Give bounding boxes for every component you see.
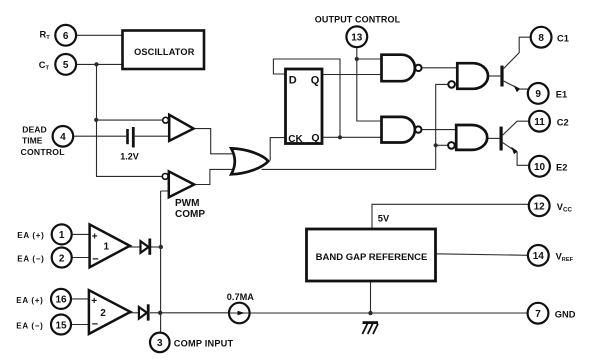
node Qbar feedback tap <box>338 135 342 139</box>
svg-text:D: D <box>289 75 297 87</box>
svg-text:16: 16 <box>55 295 67 306</box>
node CT junction <box>94 62 98 66</box>
svg-text:8: 8 <box>538 33 544 44</box>
node steering branch <box>434 143 438 147</box>
wire pin4 to capacitor <box>73 135 126 137</box>
svg-text:14: 14 <box>533 251 545 262</box>
svg-text:E1: E1 <box>556 90 567 100</box>
node dead-time branch <box>94 118 98 122</box>
svg-text:10: 10 <box>534 162 546 173</box>
wire diode D2 to comp node <box>150 312 161 314</box>
pin 10 E2 <box>529 156 567 177</box>
wire dead-time comparator output to OR gate top input <box>193 129 240 154</box>
wire amp1 output to diode D1 <box>130 246 141 248</box>
node amp2 comp junction <box>158 311 162 315</box>
svg-text:Q: Q <box>311 75 320 87</box>
pin 11 C2 <box>529 111 569 132</box>
svg-text:EA (−): EA (−) <box>16 322 43 331</box>
transistor Q1 <box>500 66 520 93</box>
capacitor 1.2V <box>128 127 134 148</box>
dead-time comparator <box>163 115 194 141</box>
svg-text:C2: C2 <box>557 118 569 128</box>
error amplifier 2 <box>89 290 130 334</box>
svg-text:GND: GND <box>555 309 576 319</box>
wire comp node to current source <box>161 312 229 314</box>
and gate U-AND1 <box>448 63 488 89</box>
wire pin1 to amp1 <box>72 233 90 235</box>
pin 16 EA+ <box>16 289 71 309</box>
svg-text:EA (+): EA (+) <box>17 231 44 240</box>
svg-text:0.7MA: 0.7MA <box>227 292 254 302</box>
pin 7 GND <box>528 303 576 324</box>
svg-text:15: 15 <box>55 320 67 331</box>
svg-text:CT: CT <box>39 60 50 72</box>
svg-text:13: 13 <box>351 33 363 44</box>
wire pin13 branch to top NAND input <box>357 58 382 60</box>
wire top NAND output to top AND <box>422 67 458 69</box>
svg-text:EA (−): EA (−) <box>17 255 44 264</box>
wire steering vertical to AND bubbles <box>436 84 449 169</box>
svg-text:1: 1 <box>104 242 110 253</box>
svg-text:4: 4 <box>60 132 66 143</box>
svg-text:−: − <box>92 319 98 331</box>
wire PWM comparator output to OR gate bottom input <box>194 169 240 184</box>
nand gate U-NAND1 <box>382 55 422 81</box>
pin 3 comp input <box>150 333 233 353</box>
svg-text:VCC: VCC <box>557 202 573 214</box>
wire pin15 to amp2 <box>71 324 89 326</box>
pin 8 C1 <box>531 27 569 48</box>
PWM comparator U-PWM <box>162 171 194 197</box>
wire bottom NAND output to bottom AND <box>422 129 457 131</box>
wire bandgap ground stem <box>370 282 372 314</box>
wire capacitor to dead-time comparator input <box>135 135 169 137</box>
pin 15 EA- <box>16 315 71 335</box>
wire node to dead-time comparator inverting input <box>96 119 162 121</box>
error amplifier 1 <box>90 224 130 267</box>
node bandgap ground junction <box>368 311 372 315</box>
svg-text:DEAD: DEAD <box>22 124 46 134</box>
wire OR output up to flip-flop CK <box>270 138 285 161</box>
svg-text:11: 11 <box>534 117 545 128</box>
svg-text:1.2V: 1.2V <box>120 152 139 162</box>
wire flip-flop Qbar to bottom NAND <box>323 136 382 138</box>
wire current source to gnd line <box>250 312 528 314</box>
wire Q2 emitter to pin10 <box>503 143 530 166</box>
node pin13 branch <box>355 57 359 61</box>
pin 6 RT <box>40 25 77 46</box>
pin 1 EA+ <box>17 224 71 244</box>
svg-text:COMP: COMP <box>175 209 205 220</box>
wire Q2 collector to pin11 <box>503 121 529 135</box>
svg-text:9: 9 <box>535 89 541 100</box>
svg-text:CONTROL: CONTROL <box>21 147 65 157</box>
label 5V <box>378 214 390 224</box>
band gap reference box <box>307 229 436 281</box>
svg-text:RT: RT <box>40 29 51 41</box>
svg-text:VREF: VREF <box>556 252 574 264</box>
and gate U-AND2 <box>448 125 487 150</box>
wire diode D1 to comp node <box>151 246 161 248</box>
svg-text:+: + <box>91 296 97 307</box>
oscillator box <box>123 31 205 70</box>
wire comp input vertical <box>161 191 169 333</box>
svg-text:12: 12 <box>534 202 546 213</box>
or-gate U-OR <box>231 148 268 174</box>
svg-text:Q: Q <box>311 132 319 144</box>
transistor Q2 <box>500 127 518 155</box>
pin 4 dead time control <box>21 124 74 157</box>
wire 5V to pin12 <box>372 204 529 228</box>
wire pin13 down <box>357 47 382 121</box>
svg-text:BAND GAP REFERENCE: BAND GAP REFERENCE <box>316 252 428 263</box>
pin 9 E1 <box>528 83 567 104</box>
pin 2 EA- <box>17 248 71 268</box>
pin 14 VREF <box>528 245 574 266</box>
svg-text:C1: C1 <box>557 33 569 43</box>
current source 0.7mA <box>229 303 250 324</box>
wire OR output long line to steering gates <box>262 168 436 170</box>
svg-text:2: 2 <box>100 308 106 319</box>
svg-text:EA (+): EA (+) <box>16 296 43 305</box>
flip-flop U-FF <box>286 69 323 145</box>
diode D1 <box>141 239 150 255</box>
wire bandgap to pin14 <box>436 254 528 256</box>
svg-text:3: 3 <box>157 338 163 349</box>
svg-text:E2: E2 <box>556 162 567 172</box>
svg-text:6: 6 <box>63 31 69 42</box>
svg-text:7: 7 <box>535 309 541 320</box>
svg-text:2: 2 <box>59 253 65 264</box>
wire Qbar feedback loop to D input <box>273 59 340 137</box>
nand gate U-NAND2 <box>382 117 422 143</box>
label PWM COMP <box>175 198 205 220</box>
svg-text:OSCILLATOR: OSCILLATOR <box>134 47 195 57</box>
wire bottom AND output to Q2 base <box>487 137 499 139</box>
svg-text:5: 5 <box>63 60 69 71</box>
pin 12 VCC <box>529 195 573 216</box>
wire flip-flop Q to top NAND <box>323 74 382 76</box>
svg-text:CK: CK <box>288 134 303 145</box>
svg-text:5V: 5V <box>378 214 390 224</box>
wire CT node down to PWM comp input <box>97 64 162 176</box>
svg-text:PWM: PWM <box>175 198 199 209</box>
wire top AND output to Q1 base <box>488 75 500 77</box>
svg-text:OUTPUT CONTROL: OUTPUT CONTROL <box>315 15 401 25</box>
wire pin16 to amp2 <box>71 298 89 300</box>
label 1.2V <box>120 152 139 162</box>
svg-text:−: − <box>92 254 98 266</box>
diode D2 <box>139 304 148 320</box>
wire Q1 emitter to pin9 <box>504 81 530 89</box>
label 0.7MA <box>227 292 254 302</box>
wire amp2 output to diode D2 <box>130 312 139 314</box>
svg-text:TIME: TIME <box>22 136 43 146</box>
wire branch to lower AND bubble <box>436 144 448 146</box>
node amp1 comp junction <box>159 245 163 249</box>
wire pin5 to oscillator <box>76 63 121 65</box>
svg-text:+: + <box>92 232 98 243</box>
svg-text:1: 1 <box>59 230 65 241</box>
pin 13 output control <box>315 15 401 48</box>
svg-text:COMP INPUT: COMP INPUT <box>174 339 234 349</box>
wire pin2 to amp1 <box>72 257 90 259</box>
pin 5 CT <box>39 54 76 75</box>
wire Q1 collector to pin8 <box>504 37 531 68</box>
wire pin6 to oscillator <box>76 34 121 36</box>
ground symbol <box>362 323 378 334</box>
